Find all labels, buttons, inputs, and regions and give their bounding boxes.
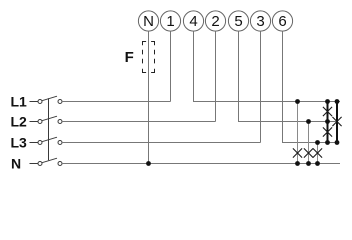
cross mark bus A lower [323,127,332,136]
cross mark bus A upper [323,107,332,116]
switch S1 (L1) [30,96,63,103]
wire L3 row [62,142,261,144]
junction dot row3 / dropper3 [315,140,320,145]
wire terminal 2 to L2 row [215,31,217,121]
wire terminal N to N row [148,31,150,163]
junction dot row2 / dropper2 [306,119,311,124]
cross mark bus B middle [332,117,341,126]
wire L1 row [62,101,171,103]
switch S2 (L2) [30,116,63,123]
switch S4 (N) [30,158,63,165]
terminal 3 [250,11,270,31]
junction dot N row / dropper2 [306,161,311,166]
cross mark dropper2 [304,148,313,157]
wire L2 row [62,121,216,123]
terminal 1 [160,11,180,31]
wire terminal 3 to L3 row [260,31,262,142]
wire N row [62,163,340,165]
junction dot row3 / bus B [335,140,340,145]
terminal 2 [205,11,225,31]
svg-text:N: N [11,155,21,171]
svg-text:F: F [125,49,134,66]
bus bar A (thick) [327,102,329,143]
wire dropper phase 3 [317,143,319,164]
wire dropper phase 1 [297,102,299,164]
bus bar B (thick) [336,102,338,143]
svg-text:6: 6 [278,13,286,30]
junction dot N vertical / N row [146,161,151,166]
svg-text:L2: L2 [11,113,28,129]
svg-text:N: N [143,13,154,30]
wire dropper phase 2 [308,122,310,164]
junction dot row3 / bus A [325,140,330,145]
wire terminal 5 elbow to right [239,31,339,121]
junction dot N row / dropper1 [295,161,300,166]
junction dot row2 / bus A [325,119,330,124]
terminal N [138,11,158,31]
svg-text:2: 2 [211,13,219,30]
terminal 4 [183,11,203,31]
junction dot N row / dropper3 [315,161,320,166]
svg-text:L1: L1 [11,93,28,109]
switch gang linkage [48,98,50,160]
wire terminal 4 elbow to right [194,31,341,101]
cross mark dropper3 [313,148,322,157]
wire terminal 1 to L1 row [170,31,172,101]
junction dot row1 / bus A [325,99,330,104]
wire terminal 6 elbow to right [283,31,340,142]
svg-text:4: 4 [189,13,197,30]
cross mark dropper1 [293,148,302,157]
svg-text:1: 1 [166,13,174,30]
terminal 6 [272,11,292,31]
svg-text:L3: L3 [11,134,28,150]
switch S3 (L3) [30,137,63,144]
svg-text:5: 5 [234,13,242,30]
junction dot row1 / bus B [335,99,340,104]
junction dot row1 / dropper1 [295,99,300,104]
svg-text:3: 3 [256,13,264,30]
fuse F dashed box [143,42,155,73]
terminal 5 [228,11,248,31]
